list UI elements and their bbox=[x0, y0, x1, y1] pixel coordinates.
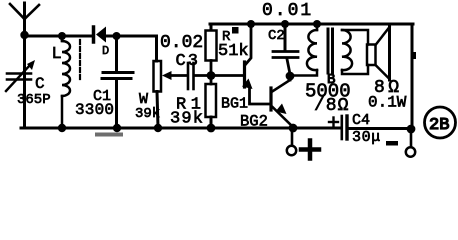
battery - terminal bbox=[406, 129, 415, 157]
potentiometer W 39k bbox=[154, 61, 188, 127]
wire left branch down bbox=[23, 35, 26, 127]
svg-text:BG1: BG1 bbox=[221, 96, 248, 113]
svg-text:C: C bbox=[35, 75, 45, 93]
node C1 bottom bbox=[113, 124, 121, 132]
capacitor C1 bbox=[102, 36, 133, 127]
antenna bbox=[10, 3, 39, 39]
svg-text:C4: C4 bbox=[352, 112, 370, 129]
node base junction bbox=[207, 71, 216, 80]
capacitor C3 bbox=[188, 63, 209, 89]
svg-text:30μ: 30μ bbox=[352, 129, 381, 146]
top rail bbox=[210, 23, 413, 26]
node after diode bbox=[113, 32, 121, 40]
node bottom right bbox=[407, 125, 416, 134]
svg-text:3300: 3300 bbox=[75, 101, 114, 119]
svg-text:39k: 39k bbox=[170, 110, 204, 129]
node BG1 collector top bbox=[247, 20, 255, 28]
inductor L bbox=[62, 36, 70, 127]
R superscript square bbox=[232, 27, 239, 34]
wire node to pot bbox=[117, 36, 157, 61]
resistor R 51k bbox=[206, 24, 217, 76]
battery + terminal bbox=[287, 130, 296, 155]
wire diode to node bbox=[106, 35, 117, 38]
svg-text:/8Ω: /8Ω bbox=[314, 96, 349, 116]
bottom rail right bbox=[348, 127, 412, 130]
svg-text:365P: 365P bbox=[17, 92, 51, 108]
node L top bbox=[58, 32, 66, 40]
transformer secondary bbox=[342, 30, 368, 74]
capacitor C2 bbox=[273, 20, 298, 74]
node BG2 emitter bottom bbox=[289, 124, 298, 133]
svg-text:C3: C3 bbox=[176, 52, 200, 71]
transformer B primary bbox=[290, 20, 321, 76]
svg-text:51k: 51k bbox=[218, 42, 249, 61]
resistor R1 39k bbox=[206, 76, 217, 128]
svg-text:39k: 39k bbox=[135, 106, 160, 122]
diode D bbox=[94, 27, 107, 43]
svg-text:0.1W: 0.1W bbox=[368, 94, 407, 112]
variable capacitor C 365P bbox=[6, 60, 35, 91]
speaker bbox=[367, 26, 390, 80]
wire nub bbox=[414, 52, 417, 59]
transistor BG2 bbox=[271, 74, 293, 127]
node R1 bottom bbox=[207, 124, 216, 133]
svg-text:2B: 2B bbox=[429, 116, 449, 135]
wire top (antenna to diode) bbox=[25, 35, 93, 38]
wire base to BG1 bbox=[211, 74, 243, 77]
svg-text:D: D bbox=[102, 44, 109, 58]
svg-text:L: L bbox=[52, 45, 62, 64]
svg-text:0.01: 0.01 bbox=[262, 1, 313, 21]
node pot bottom bbox=[154, 124, 162, 132]
minus sign bbox=[386, 141, 398, 146]
capacitor C4 bbox=[329, 116, 347, 139]
plus sign bbox=[301, 141, 319, 159]
right rail down bbox=[411, 24, 414, 129]
svg-text:0.02: 0.02 bbox=[160, 33, 203, 53]
bottom rail left bbox=[21, 127, 341, 130]
node collector/C2/primary bbox=[286, 72, 295, 81]
node L bottom bbox=[58, 124, 66, 132]
ferrite core (dashed) bbox=[79, 40, 81, 82]
transistor BG1 bbox=[242, 24, 270, 104]
transformer core bbox=[328, 29, 333, 73]
figure label 2B circle bbox=[425, 107, 456, 138]
ground smudge bbox=[95, 133, 123, 137]
svg-text:C2: C2 bbox=[268, 28, 285, 44]
